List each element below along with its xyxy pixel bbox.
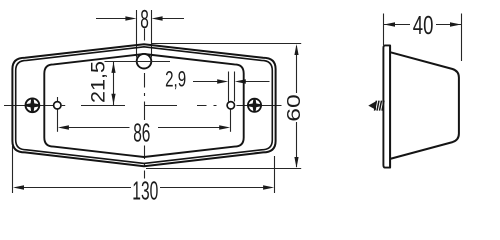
wire extension line dim 60 top (151, 43, 301, 45)
left screw head (25, 98, 40, 113)
wire dim 60 lower segment with arrow (296, 122, 298, 167)
wire dim 2.9 left arrow (193, 81, 225, 83)
wire dim 130 left segment with arrow (15, 187, 131, 189)
wire dim 40 left segment with arrow (384, 24, 410, 26)
side view fixing screw symbol (368, 101, 384, 111)
wire extension line dim 40 right (461, 14, 463, 62)
wire dim 8 left arrow (96, 18, 134, 20)
svg-text:130: 130 (132, 176, 158, 206)
wire dim 8 right arrow (154, 18, 184, 20)
node vertical centerline front view (144, 29, 146, 179)
svg-text:86: 86 (133, 117, 150, 147)
wire extension line dim 60 bottom (146, 168, 301, 170)
side view mounting flange (383, 45, 390, 167)
wire extension line left hole above (57, 97, 59, 102)
svg-text:60: 60 (283, 94, 304, 122)
node center top hole dia 8 (137, 54, 152, 69)
wire dim 130 right segment with arrow (160, 187, 272, 189)
wire dim 21.5 vertical dimension line with arrows (113, 62, 115, 106)
node horizontal centerline front view (4, 105, 282, 107)
wire extension line dim 8 left tangent (136, 10, 138, 58)
svg-text:8: 8 (140, 4, 149, 34)
wire extension line dim 8 right tangent (151, 10, 153, 58)
wire extension line dim 21.5 through hole center (105, 61, 171, 63)
node left fixing hole (54, 102, 61, 109)
wire dim 60 upper segment with arrow (296, 46, 298, 93)
lens face inner outline (44, 54, 243, 157)
wire dim 2.9 right tangent extension (234, 72, 236, 102)
wire dim 2.9 left tangent extension (228, 72, 230, 102)
wire extension line dim 130 left (12, 146, 14, 193)
svg-text:2,9: 2,9 (165, 67, 186, 92)
wire extension line dim 40 left (383, 14, 385, 46)
wire extension line left hole below (57, 109, 59, 132)
housing outer outline front view (12, 44, 275, 166)
svg-text:21,5: 21,5 (88, 61, 110, 103)
wire dim 40 right segment with arrow (436, 24, 461, 26)
wire extension line dim 130 right (274, 156, 276, 193)
side view cone body (390, 52, 459, 159)
wire extension line right hole below (230, 109, 232, 132)
housing wall inner offset line (16, 47, 273, 164)
wire dim 86 left segment with arrow (60, 127, 130, 129)
wire dim 86 right segment with arrow (158, 127, 228, 129)
right screw head (248, 98, 262, 112)
wire dim 2.9 right arrow (238, 81, 270, 83)
svg-text:40: 40 (413, 10, 434, 40)
node right fixing hole dia 2.9 (227, 102, 234, 109)
